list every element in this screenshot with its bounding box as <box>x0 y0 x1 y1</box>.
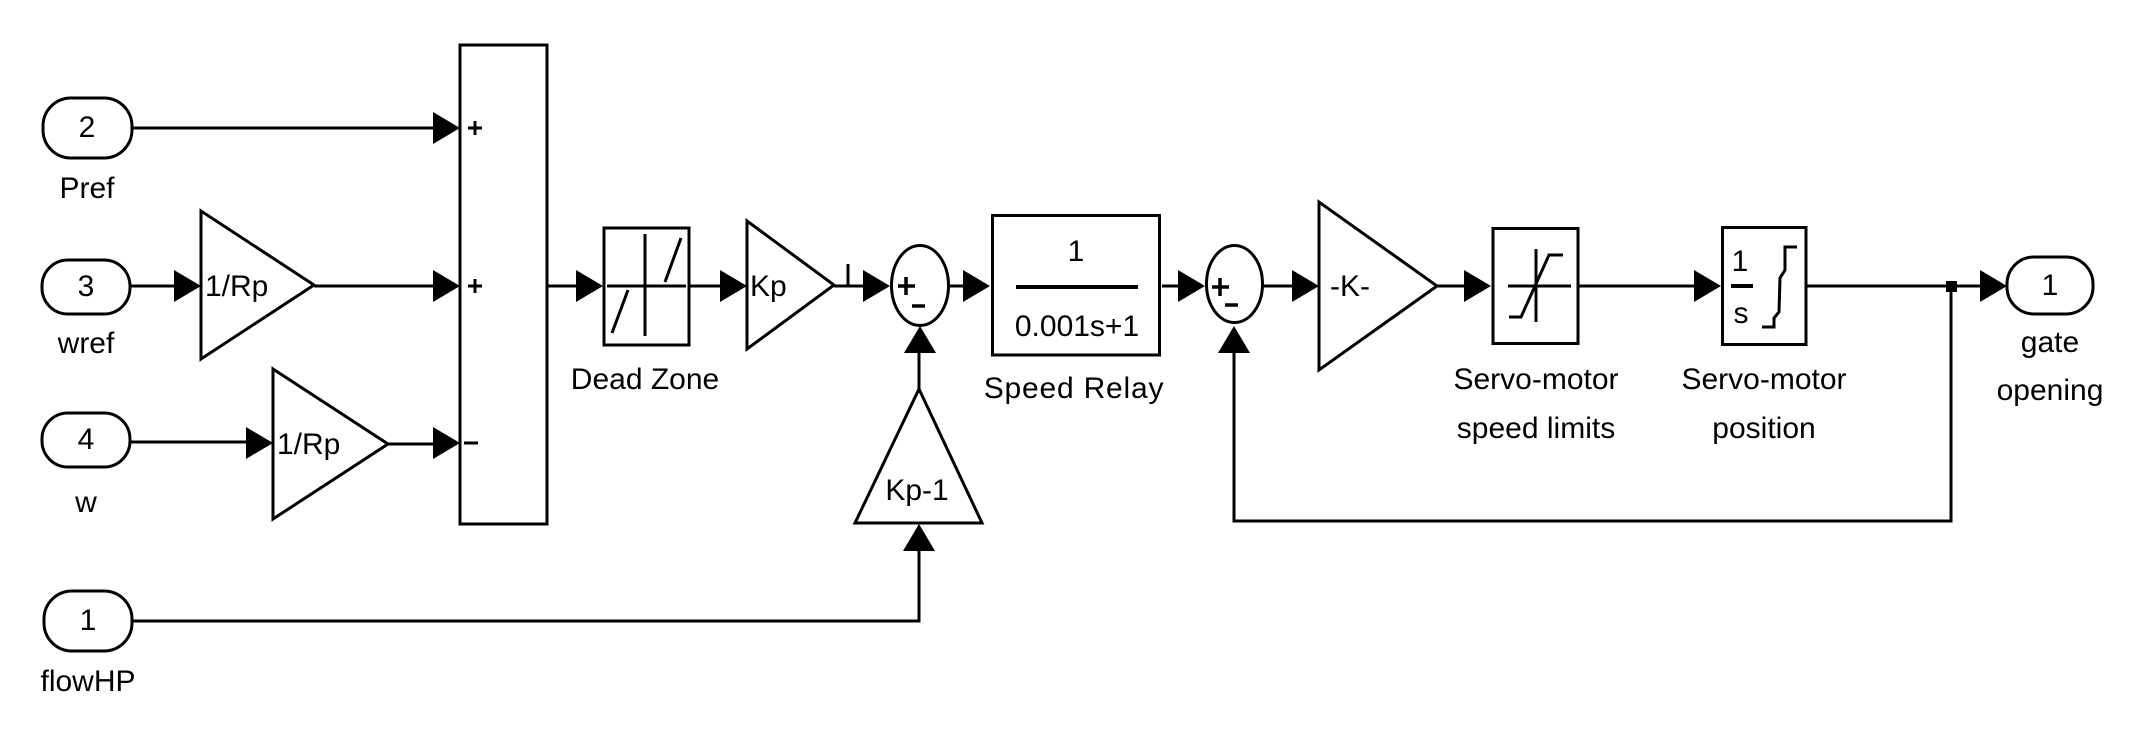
svg-text:1: 1 <box>80 604 97 637</box>
svg-text:Speed Relay: Speed Relay <box>984 372 1165 405</box>
svg-text:-K-: -K- <box>1330 270 1370 303</box>
svg-text:w: w <box>74 486 97 519</box>
svg-text:Kp: Kp <box>750 270 787 303</box>
svg-text:1/Rp: 1/Rp <box>277 428 340 461</box>
svg-text:3: 3 <box>78 270 95 303</box>
svg-text:opening: opening <box>1997 374 2104 407</box>
svg-text:1/Rp: 1/Rp <box>205 270 268 303</box>
svg-text:Dead Zone: Dead Zone <box>571 363 719 396</box>
svg-text:gate: gate <box>2021 326 2079 359</box>
svg-text:Pref: Pref <box>59 172 115 205</box>
svg-text:4: 4 <box>78 423 95 456</box>
svg-text:0.001s+1: 0.001s+1 <box>1015 310 1139 343</box>
svg-text:1: 1 <box>1732 245 1749 278</box>
svg-text:flowHP: flowHP <box>40 665 135 698</box>
svg-text:1: 1 <box>2042 269 2059 302</box>
svg-text:s: s <box>1734 297 1749 330</box>
svg-text:wref: wref <box>57 327 115 360</box>
svg-text:Kp-1: Kp-1 <box>885 474 948 507</box>
svg-text:2: 2 <box>79 111 96 144</box>
svg-text:speed limits: speed limits <box>1457 412 1615 445</box>
svg-text:Servo-motor: Servo-motor <box>1681 363 1846 396</box>
svg-text:1: 1 <box>1068 235 1085 268</box>
svg-text:position: position <box>1712 412 1815 445</box>
svg-text:Servo-motor: Servo-motor <box>1453 363 1618 396</box>
